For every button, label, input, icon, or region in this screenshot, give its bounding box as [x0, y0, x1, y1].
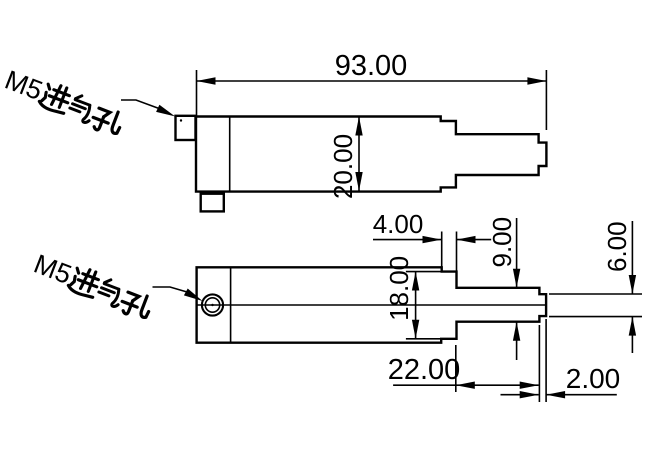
svg-text:93.00: 93.00	[335, 50, 408, 82]
svg-text:22.00: 22.00	[388, 354, 461, 386]
dimension 22.00 : extension line right (tab left edge, down)	[538, 325, 540, 402]
dimension 93.00 : dimension line	[197, 80, 547, 82]
svg-text:9.00: 9.00	[487, 217, 517, 268]
hanzi kong	[89, 104, 124, 137]
centerline (bottom view)	[197, 304, 546, 306]
dimension 4.00 : left arrowhead	[423, 236, 442, 243]
dimension 6.00 : dimension line upper	[631, 221, 633, 294]
dimension 4.00 : extension line left	[441, 232, 443, 267]
dimension 6.00 : lower arrowhead (up)	[629, 317, 636, 336]
part outline (top view body with stepped nozzle)	[196, 117, 546, 192]
dimension 93.00 : left arrowhead	[197, 77, 216, 84]
center dot in boss	[180, 119, 182, 121]
dimension 2.00 : left arrowhead (points right)	[520, 391, 539, 398]
dimension 6.00 : dimension line lower	[631, 317, 633, 353]
dimension 18.00 : bottom arrowhead	[412, 320, 419, 339]
hanzi jin	[38, 81, 73, 115]
inner edge line (top view)	[229, 117, 231, 192]
dimension 4.00 : dimension line right part	[457, 239, 492, 241]
svg-text:2.00: 2.00	[566, 363, 621, 394]
dimension 20.00 : dimension line (vertical)	[358, 117, 360, 192]
dimension 9.00 : dimension line upper	[516, 218, 518, 288]
dimension 18.00 : top arrowhead	[412, 272, 419, 291]
dimension 2.00 : dimension line right part	[546, 394, 617, 396]
dimension 18.00 : extension line top	[406, 271, 442, 273]
dimension 22.00 : extension line left	[455, 345, 457, 392]
dimension 22.00 : right arrowhead	[520, 382, 539, 389]
dimension 20.00 : bottom arrowhead	[355, 172, 362, 191]
bottom boss (small square below body)	[201, 194, 224, 212]
dimension 18.00 : extension line bottom	[406, 338, 441, 340]
dimension 2.00 : extension line right (tab right edge, down)	[545, 319, 547, 402]
hanzi qi	[67, 93, 97, 123]
leader line (bottom view)	[153, 287, 188, 292]
dimension 22.00 : dimension line	[393, 384, 539, 386]
dimension 6.00 : extension line bottom	[549, 316, 642, 318]
dimension 2.00 : right arrowhead (points left)	[546, 391, 565, 398]
svg-text:18.00: 18.00	[384, 256, 414, 321]
dimension 4.00 : dimension line left part	[373, 239, 442, 241]
dimension 6.00 : upper arrowhead (down)	[629, 275, 636, 294]
dimension 9.00 : dimension line lower	[516, 322, 518, 360]
dimension 9.00 : upper arrowhead (down)	[513, 269, 520, 288]
dimension 20.00 : top arrowhead	[355, 117, 362, 136]
leader arrowhead (top view)	[156, 105, 175, 117]
svg-text:M5: M5	[1, 65, 47, 106]
leader note M5 (top view) : text M5	[1, 65, 127, 138]
leader line (top view)	[121, 100, 159, 109]
svg-text:M5: M5	[30, 249, 76, 290]
dimension 22.00 : left arrowhead	[456, 382, 475, 389]
dimension 18.00 : dimension line	[415, 272, 417, 339]
dimension 6.00 : extension line top	[549, 293, 642, 295]
dimension 2.00 : dimension line left part	[501, 394, 539, 396]
dimension 93.00 : extension line right	[545, 70, 547, 130]
M5 inlet hole outer circle	[202, 294, 223, 315]
dimension 9.00 : lower arrowhead (up)	[513, 322, 520, 341]
dimension 4.00 : extension line right	[456, 232, 458, 272]
dimension 93.00 : extension line left	[196, 70, 198, 116]
M5 inlet hole inner circle	[205, 298, 219, 312]
svg-text:4.00: 4.00	[373, 209, 424, 239]
M5 inlet boss (top view, small square top-left)	[176, 116, 196, 140]
leader arrowhead (bottom view)	[184, 289, 203, 302]
leader note M5 (bottom view) : text	[30, 249, 156, 322]
svg-text:6.00: 6.00	[602, 221, 632, 272]
svg-text:20.00: 20.00	[328, 134, 358, 199]
hole center dot	[211, 304, 213, 306]
part outline (bottom view body with stepped nozzle)	[197, 267, 546, 342]
dimension 93.00 : right arrowhead	[527, 77, 546, 84]
dimension 4.00 : right arrowhead	[457, 236, 476, 243]
inner edge line (bottom view)	[230, 267, 232, 342]
